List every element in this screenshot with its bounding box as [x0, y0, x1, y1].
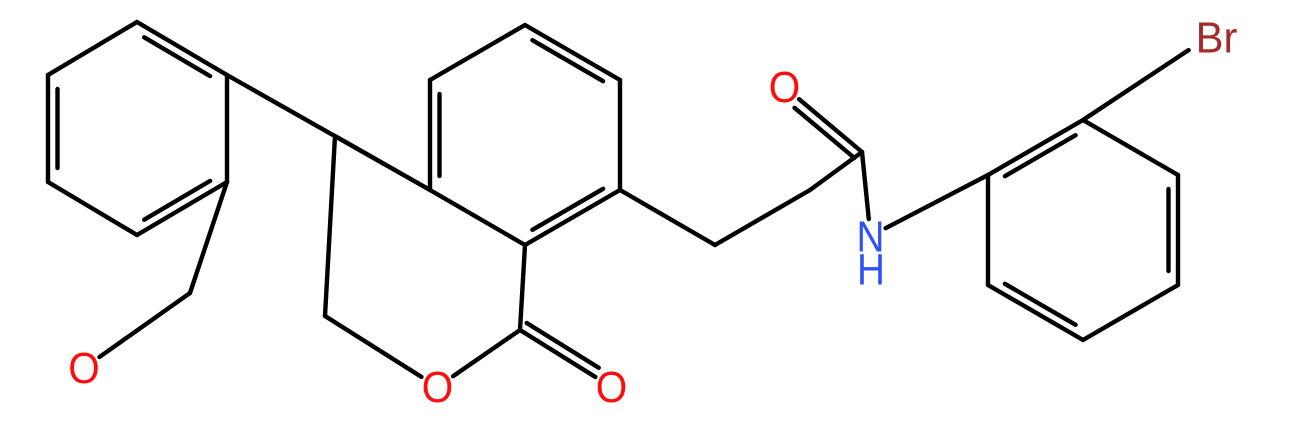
svg-text:Br: Br — [1196, 13, 1238, 62]
svg-text:O: O — [596, 363, 627, 412]
svg-text:H: H — [857, 244, 885, 294]
svg-text:O: O — [422, 363, 453, 412]
svg-text:O: O — [68, 344, 99, 393]
svg-text:O: O — [769, 63, 800, 112]
